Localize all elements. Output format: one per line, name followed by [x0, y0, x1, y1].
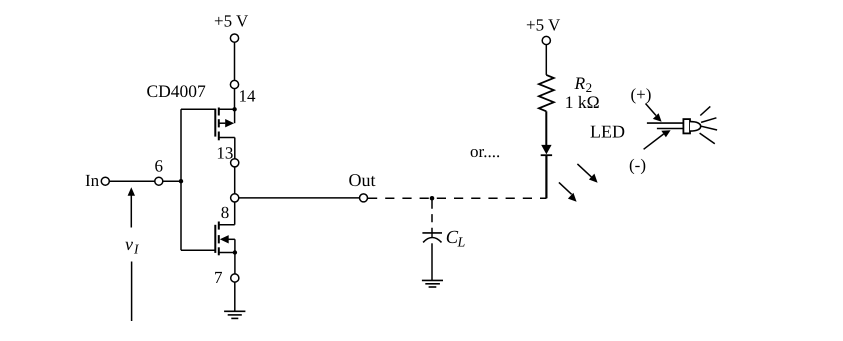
- bulk arrow (points left, NMOS): [220, 235, 229, 243]
- junction dot on dashed wire: [430, 196, 435, 201]
- input junction dot: [179, 179, 183, 183]
- channel segment middle: [218, 235, 220, 243]
- vI input arrow shaft: [130, 195, 132, 228]
- wire pin14 to PMOS source: [234, 89, 236, 110]
- LED package cathode lead: [657, 128, 684, 130]
- svg-text:LED: LED: [590, 121, 625, 141]
- svg-text:+5 V: +5 V: [526, 16, 561, 35]
- channel segment middle: [218, 119, 220, 127]
- bulk tie wire: [234, 109, 236, 123]
- output node circle: [231, 194, 239, 202]
- LED package flange: [683, 119, 690, 133]
- svg-text:Out: Out: [349, 170, 376, 190]
- ground (NMOS source): [224, 311, 245, 318]
- svg-text:(-): (-): [629, 155, 646, 174]
- svg-text:CD4007: CD4007: [147, 81, 207, 101]
- wire +5V to R2: [545, 45, 547, 75]
- LED cathode bar: [541, 154, 552, 156]
- wire LED cathode to dashed node: [545, 155, 547, 198]
- svg-text:+5 V: +5 V: [214, 12, 249, 31]
- LED package anode lead: [647, 122, 684, 124]
- bulk stub: [229, 238, 235, 240]
- wire pin13 to output node: [234, 167, 236, 194]
- (+) pointer arrow: [646, 104, 662, 122]
- light emission arrow 1: [577, 164, 597, 183]
- drain stub (top): [219, 224, 235, 226]
- pin 6 terminal circle: [155, 177, 163, 185]
- pin 14 terminal circle: [230, 80, 238, 88]
- svg-text:13: 13: [216, 144, 233, 163]
- light emission arrow 2: [559, 182, 577, 201]
- wire pin 6 to junction: [163, 180, 181, 182]
- LED diode triangle: [541, 145, 551, 155]
- +5V terminal circle (left): [230, 34, 238, 42]
- svg-text:6: 6: [155, 157, 164, 176]
- curved bottom plate: [423, 238, 441, 243]
- svg-text:or....: or....: [470, 142, 500, 161]
- NMOS transistor (lower, CD4007): [215, 222, 237, 275]
- bulk arrow (points right, PMOS): [225, 119, 234, 127]
- gate bar: [214, 109, 216, 137]
- vI reference line (below label): [131, 262, 133, 322]
- source stub (bottom): [219, 252, 235, 254]
- wire output node to Out terminal: [239, 197, 360, 199]
- bulk stub: [219, 122, 226, 124]
- op PMOS transistor (upper, CD4007): [215, 107, 237, 159]
- gate bar: [214, 225, 216, 253]
- capacitor CL: [422, 233, 442, 281]
- (-) pointer arrow: [644, 130, 671, 149]
- svg-text:R: R: [574, 73, 586, 93]
- source stub (top): [219, 108, 235, 110]
- channel segment bottom: [218, 132, 220, 141]
- vI input arrow head: [128, 187, 135, 196]
- svg-text:(+): (+): [631, 85, 652, 104]
- gate bus vertical wire: [180, 109, 182, 250]
- gate bus wire (PMOS gate wire): [181, 108, 215, 110]
- light ray C: [701, 126, 717, 130]
- pin 13 terminal circle: [231, 159, 239, 167]
- svg-text:In: In: [85, 171, 100, 190]
- stub between plates: [431, 233, 433, 237]
- light ray B: [701, 118, 716, 123]
- channel segment top: [218, 108, 220, 116]
- pin 7 terminal circle: [231, 274, 239, 282]
- drain stub (bottom): [219, 137, 235, 139]
- top plate: [422, 232, 442, 234]
- bulk junction dot: [232, 107, 236, 111]
- channel segment top: [218, 222, 220, 230]
- NMOS gate wire: [181, 249, 215, 251]
- LED package dome: [690, 122, 701, 132]
- dashed wire Out to load: [368, 197, 547, 199]
- svg-text:14: 14: [239, 87, 257, 106]
- wire In to pin 6: [109, 180, 155, 182]
- lead to ground: [431, 243, 433, 280]
- wire pin7 to ground: [234, 282, 236, 311]
- svg-text:L: L: [457, 236, 466, 251]
- ground (capacitor): [422, 280, 443, 287]
- In terminal circle: [101, 177, 109, 185]
- channel segment bottom: [218, 247, 220, 255]
- light ray A: [700, 106, 710, 115]
- resistor R2 zigzag: [539, 75, 554, 111]
- bulk tie wire: [234, 239, 236, 252]
- Out terminal circle: [360, 194, 368, 202]
- svg-text:7: 7: [214, 268, 223, 287]
- +5V terminal circle (right): [542, 36, 550, 44]
- light ray D: [700, 133, 715, 144]
- svg-text:1 kΩ: 1 kΩ: [565, 92, 600, 112]
- svg-text:v: v: [125, 234, 133, 254]
- wire +5V to pin 14: [234, 42, 236, 80]
- wire drain to pin 13: [234, 138, 236, 159]
- wire source to pin 7: [234, 253, 236, 275]
- svg-text:8: 8: [221, 203, 230, 222]
- bulk junction dot: [233, 250, 237, 254]
- wire output node to NMOS drain: [234, 202, 236, 225]
- wire R2 to LED anode: [545, 111, 547, 145]
- dashed wire down to CL: [431, 201, 433, 234]
